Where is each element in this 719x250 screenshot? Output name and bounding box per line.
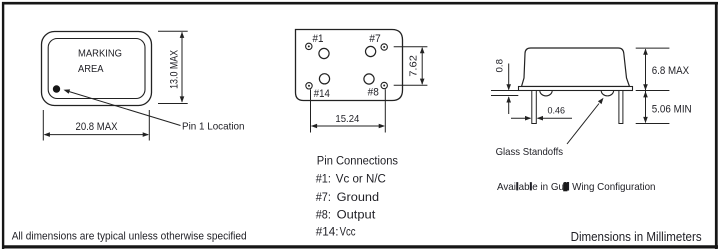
svg-text:Glass Standoffs: Glass Standoffs <box>496 146 563 158</box>
right lead <box>619 91 623 124</box>
package outline inner <box>48 39 145 99</box>
svg-text:#1:: #1: <box>316 172 331 186</box>
pin #1 <box>306 43 312 49</box>
svg-text:Vcc: Vcc <box>340 224 356 238</box>
glass standoffs leader <box>567 98 604 144</box>
mounting hole near #14 <box>319 74 329 84</box>
pin 1 dot <box>53 85 60 92</box>
svg-text:#14:: #14: <box>316 224 339 238</box>
svg-text:Vc or N/C: Vc or N/C <box>336 172 386 186</box>
svg-text:Ground: Ground <box>337 190 380 204</box>
dimension 0.8 <box>491 64 518 115</box>
package outline outer <box>42 32 152 106</box>
svg-text:#8:: #8: <box>316 207 331 221</box>
dimension 20.8 MAX <box>43 110 149 141</box>
svg-text:5.06 MIN: 5.06 MIN <box>652 103 692 115</box>
svg-text:0.46: 0.46 <box>548 105 566 115</box>
pin connection line 4 <box>316 224 356 238</box>
mounting hole near #8 <box>364 74 374 84</box>
glass standoff right <box>601 91 613 96</box>
svg-text:Output: Output <box>337 207 376 221</box>
can body <box>522 48 630 87</box>
svg-text:#8: #8 <box>368 87 379 99</box>
pin connection line 1 <box>316 172 386 186</box>
svg-text:Available in Gull Wing Configu: Available in Gull Wing Configuration <box>497 181 656 193</box>
marking area label <box>78 49 122 75</box>
svg-text:13.0 MAX: 13.0 MAX <box>169 50 181 89</box>
dimension 13.0 MAX <box>158 31 188 103</box>
left lead <box>532 91 537 124</box>
gull wing note ll ligature block <box>563 183 567 192</box>
svg-text:6.8 MAX: 6.8 MAX <box>652 65 690 77</box>
svg-text:#14: #14 <box>314 88 330 100</box>
pin connection line 3 <box>316 207 376 221</box>
package bottom outline <box>296 30 403 101</box>
base flange <box>519 87 633 91</box>
svg-text:Dimensions in Millimeters: Dimensions in Millimeters <box>571 230 702 244</box>
svg-text:#7: #7 <box>369 33 381 45</box>
svg-text:7.62: 7.62 <box>408 55 420 77</box>
svg-text:All dimensions are typical unl: All dimensions are typical unless otherw… <box>12 231 247 243</box>
svg-text:MARKING: MARKING <box>78 49 122 60</box>
pin 1 leader line <box>64 89 181 125</box>
svg-text:20.8 MAX: 20.8 MAX <box>76 121 118 133</box>
svg-text:#1: #1 <box>313 33 324 45</box>
svg-text:0.8: 0.8 <box>494 59 504 73</box>
svg-text:15.24: 15.24 <box>335 113 359 125</box>
pin #14 <box>306 83 312 89</box>
svg-text:AREA: AREA <box>78 64 104 75</box>
dimension 6.8 MAX / 5.06 MIN <box>636 48 670 123</box>
mounting hole near #7 <box>366 46 376 56</box>
pin connection line 2 <box>316 190 380 204</box>
svg-text:#7:: #7: <box>316 190 331 204</box>
dimension 0.46 <box>511 116 572 121</box>
dimension 7.62 <box>394 47 428 85</box>
svg-text:Pin 1 Location: Pin 1 Location <box>182 121 245 132</box>
svg-text:Pin Connections: Pin Connections <box>317 153 398 167</box>
glass standoff left <box>540 91 552 96</box>
pin #7 <box>381 44 387 50</box>
pin #8 <box>381 82 387 88</box>
dimension 15.24 <box>311 89 386 132</box>
mounting hole near #1 <box>319 48 329 58</box>
